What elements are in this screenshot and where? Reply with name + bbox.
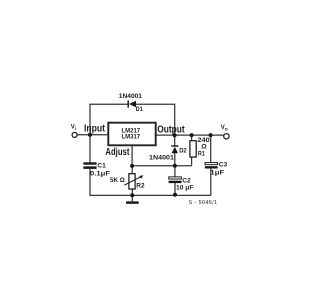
terminal Vo — [224, 134, 229, 139]
terminal Vi — [72, 132, 77, 137]
wire C1 to bottom rail — [90, 169, 211, 196]
wire adjust node to C2 — [174, 166, 176, 177]
svg-text:Adjust: Adjust — [105, 147, 130, 158]
wire output to D2 cathode — [174, 135, 176, 146]
wire C2 to bottom rail — [174, 183, 176, 196]
node bottom/C2 junction — [173, 193, 177, 197]
wire adjust pin — [131, 145, 133, 166]
wire adjust node to R2 top — [131, 166, 133, 174]
capacitor C1 — [83, 162, 96, 169]
svg-text:LM317: LM317 — [122, 133, 141, 140]
label Vo — [221, 125, 228, 132]
svg-text:0.1μF: 0.1μF — [90, 170, 110, 177]
diode D2 — [171, 146, 178, 153]
node bottom/ground junction — [130, 193, 134, 197]
svg-text:R2: R2 — [136, 182, 145, 189]
op-amp U1 regulator box LM217/LM317 — [108, 123, 155, 146]
svg-text:10 μF: 10 μF — [176, 184, 193, 191]
node input junction — [88, 133, 92, 137]
wire output rail — [156, 134, 224, 136]
node adjust/R2 junction — [130, 164, 134, 168]
wire ground stub — [131, 195, 133, 201]
wire C3 to bottom rail — [210, 168, 212, 195]
node output/C3 junction — [209, 133, 213, 137]
label Vi — [71, 124, 76, 131]
svg-text:C2: C2 — [182, 177, 191, 184]
wire R1 bottom to adjust wire — [191, 157, 193, 166]
svg-text:S - 5046/1: S - 5046/1 — [189, 200, 218, 206]
svg-text:C1: C1 — [97, 163, 106, 170]
capacitor C2 (polarized) — [169, 177, 182, 183]
svg-text:R1: R1 — [198, 151, 205, 158]
svg-text:D1: D1 — [136, 106, 143, 113]
svg-text:C3: C3 — [219, 162, 228, 169]
resistor R2 (potentiometer) — [124, 174, 143, 189]
svg-text:1μF: 1μF — [210, 170, 224, 177]
wire top bypass right segment — [136, 104, 175, 135]
node adjust/D2 junction — [173, 164, 177, 168]
svg-text:1N4001: 1N4001 — [149, 155, 174, 162]
svg-text:5K Ω: 5K Ω — [110, 177, 125, 184]
svg-text:Input: Input — [84, 124, 106, 135]
svg-text:D2: D2 — [179, 147, 187, 154]
svg-text:i: i — [75, 126, 76, 131]
wire R2 bottom to bottom rail — [131, 189, 133, 195]
svg-text:1N4001: 1N4001 — [119, 93, 143, 100]
wire output to R1 top — [191, 135, 193, 141]
svg-text:Ω: Ω — [201, 144, 207, 151]
node output/top-wire junction — [173, 133, 177, 137]
wire D2 anode to adjust node — [174, 153, 176, 166]
wire output to C3 — [210, 135, 212, 162]
resistor R1 — [190, 141, 196, 157]
capacitor C3 (polarized) — [205, 163, 218, 169]
wire top bypass left segment — [90, 104, 128, 162]
ground — [126, 201, 139, 203]
wire input rail — [77, 134, 108, 136]
node output/R1 junction — [190, 133, 194, 137]
svg-text:o: o — [225, 127, 228, 132]
diode D1 — [128, 100, 136, 107]
svg-text:Output: Output — [157, 124, 185, 135]
wire adjust horizontal — [132, 165, 192, 167]
